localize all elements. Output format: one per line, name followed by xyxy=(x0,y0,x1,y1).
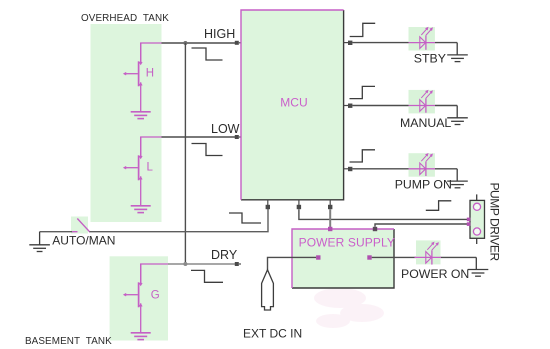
svg-text:MCU: MCU xyxy=(280,95,307,109)
pin HIGH xyxy=(235,41,241,45)
LED STBY xyxy=(409,27,435,51)
svg-text:H: H xyxy=(146,68,154,80)
svg-text:POWER SUPPLY: POWER SUPPLY xyxy=(299,235,395,249)
wire MANUAL xyxy=(352,105,409,107)
svg-text:STBY: STBY xyxy=(414,52,446,66)
LED PUMP ON xyxy=(409,153,435,177)
wire HIGH (magenta drain segment) xyxy=(141,43,162,64)
pin power supply top (to connector) xyxy=(373,227,377,231)
switch AUTO/MAN blade xyxy=(77,219,90,233)
node HIGH junction xyxy=(183,41,187,45)
wire HIGH xyxy=(162,42,236,44)
svg-text:PUMP ON: PUMP ON xyxy=(395,178,452,192)
wire MCU pin3 to power supply xyxy=(329,209,331,229)
svg-text:OVERHEAD TANK: OVERHEAD TANK xyxy=(81,13,169,24)
pin MCU bottom 2 xyxy=(297,200,301,209)
svg-text:HIGH: HIGH xyxy=(204,27,235,41)
waveform icon MANUAL xyxy=(350,86,376,98)
pin power supply right xyxy=(367,255,371,259)
wire power supply to connector xyxy=(375,224,467,227)
basement tank sensor region (green) xyxy=(110,256,168,340)
EXT DC IN plug symbol xyxy=(262,270,274,310)
wire STBY xyxy=(352,42,409,44)
ground (MANUAL) xyxy=(456,106,458,118)
pin connector 1 xyxy=(467,218,471,222)
waveform icon HIGH xyxy=(192,48,223,60)
POWER SUPPLY block xyxy=(292,229,395,288)
wire DRY xyxy=(168,263,235,265)
pin MANUAL xyxy=(344,104,353,108)
ground (POWER ON) xyxy=(475,257,477,269)
transistor H xyxy=(124,43,151,119)
wire MCU pin2 to pump connector xyxy=(299,209,467,219)
svg-text:EXT DC IN: EXT DC IN xyxy=(243,327,302,341)
wire common sense line (vertical) xyxy=(184,43,186,264)
svg-text:MANUAL: MANUAL xyxy=(400,116,451,130)
pin MCU bottom 3 xyxy=(328,200,332,209)
pin DRY xyxy=(235,262,241,266)
wire AUTO/MAN to MCU xyxy=(90,209,269,232)
overhead tank sensor region (green) xyxy=(91,24,162,222)
ground (PUMP ON) xyxy=(456,169,458,181)
wire POWER ON right xyxy=(441,256,477,258)
waveform icon AUTO/MAN xyxy=(229,213,261,223)
LED POWER ON xyxy=(416,240,441,264)
svg-text:PUMP DRIVER: PUMP DRIVER xyxy=(488,183,502,262)
MCU U1 xyxy=(241,10,344,200)
waveform icon STBY xyxy=(350,23,376,36)
pin connector 2 xyxy=(467,222,471,226)
wire POWER ON left xyxy=(372,256,416,258)
svg-text:POWER ON: POWER ON xyxy=(401,267,469,281)
svg-text:LOW: LOW xyxy=(211,122,240,136)
svg-text:L: L xyxy=(147,162,154,174)
transistor G xyxy=(124,264,151,340)
svg-text:DRY: DRY xyxy=(211,248,238,262)
wire AUTO/MAN left xyxy=(40,231,73,233)
wire EXT DC IN xyxy=(268,257,317,269)
LED MANUAL xyxy=(409,90,435,114)
waveform icon PUMP DRIVER xyxy=(426,201,452,211)
pin LOW xyxy=(235,135,241,139)
transistor L xyxy=(124,137,151,213)
svg-text:G: G xyxy=(151,290,160,302)
pin STBY xyxy=(344,41,353,45)
waveform icon DRY xyxy=(191,270,223,282)
wire LOW xyxy=(162,136,236,138)
watermark smudge xyxy=(314,288,384,328)
wire LOW (magenta drain segment) xyxy=(141,137,162,158)
ground (AUTO/MAN) xyxy=(39,232,41,245)
wire DRY (magenta drain segment) xyxy=(141,264,169,285)
pin MCU bottom 1 xyxy=(266,200,270,209)
pin power supply top (to MCU) xyxy=(328,227,332,231)
waveform icon LOW xyxy=(192,144,223,156)
svg-text:BASEMENT TANK: BASEMENT TANK xyxy=(25,336,112,347)
pin power supply left xyxy=(316,255,320,259)
waveform icon PUMP ON xyxy=(350,150,376,162)
node DRY junction xyxy=(183,262,187,266)
svg-text:AUTO/MAN: AUTO/MAN xyxy=(52,234,115,248)
switch region (green) xyxy=(71,217,88,234)
pump connector J1 xyxy=(470,194,485,244)
wire switch contact stub xyxy=(72,231,78,233)
pin PUMP ON xyxy=(344,167,353,171)
wire PUMP ON xyxy=(352,168,409,170)
ground (STBY) xyxy=(456,43,458,55)
